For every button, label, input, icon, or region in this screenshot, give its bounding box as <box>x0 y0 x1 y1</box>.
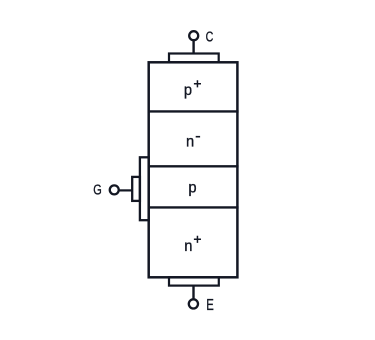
region label n- <box>186 133 194 151</box>
superscript plus of n+ <box>194 236 201 243</box>
collector contact bar <box>169 54 219 63</box>
label G <box>93 181 102 198</box>
gate electrode plate <box>132 177 140 201</box>
terminal circle C <box>189 31 198 40</box>
region label p <box>188 179 196 197</box>
junction line n-/p <box>148 165 239 167</box>
terminal circle G <box>110 185 119 194</box>
device body outline <box>149 62 238 277</box>
svg-text:E: E <box>206 295 214 313</box>
emitter contact bar <box>169 277 219 285</box>
region label p+ <box>184 81 192 99</box>
region label n+ <box>184 237 192 255</box>
wire C <box>192 41 194 55</box>
svg-text:C: C <box>206 28 214 45</box>
terminal circle E <box>189 299 198 308</box>
svg-text:n: n <box>184 237 192 255</box>
svg-text:G: G <box>93 181 102 198</box>
label E <box>206 295 214 313</box>
wire E <box>192 286 194 300</box>
gate oxide bar <box>140 157 149 220</box>
junction line p/n+ <box>148 206 239 208</box>
junction line p+/n- <box>148 110 239 112</box>
label C <box>206 28 214 45</box>
svg-text:p: p <box>188 179 196 197</box>
superscript minus of n- <box>196 136 200 138</box>
superscript plus of p+ <box>194 80 201 87</box>
svg-text:n: n <box>186 133 194 151</box>
svg-text:p: p <box>184 81 192 99</box>
wire G <box>119 189 134 191</box>
